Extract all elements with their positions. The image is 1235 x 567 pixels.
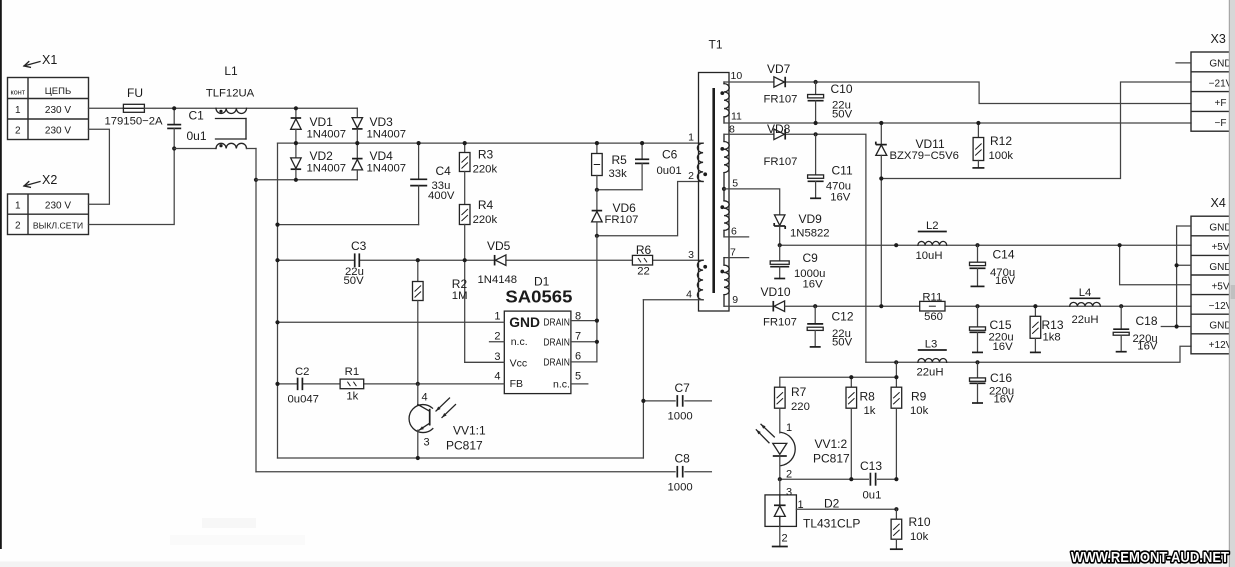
zener diode VD11	[876, 123, 887, 306]
svg-text:1: 1	[786, 422, 792, 434]
svg-text:16V: 16V	[993, 341, 1014, 353]
node C12 top	[813, 304, 817, 308]
node R2 top	[416, 258, 420, 262]
svg-text:R1: R1	[345, 366, 359, 378]
svg-text:2: 2	[782, 533, 788, 545]
node transformer pin5 junction	[722, 187, 726, 191]
svg-text:2: 2	[688, 170, 694, 182]
connector X1 arrow	[24, 62, 40, 68]
svg-text:3: 3	[688, 249, 694, 261]
node D2-R10 junction	[894, 507, 898, 511]
diode VD10	[773, 301, 784, 312]
connector X3 label	[1211, 32, 1226, 46]
resistor R12	[972, 123, 984, 168]
wire bridge mid rail (DC+)	[278, 142, 704, 144]
svg-text:−F: −F	[1215, 118, 1227, 129]
node R12 top	[976, 121, 980, 125]
wire C8 line (wire B)	[256, 467, 711, 476]
svg-text:1: 1	[15, 105, 21, 116]
svg-text:VV1:2: VV1:2	[815, 437, 848, 451]
wire R4 to Vcc corner	[465, 260, 505, 362]
wire pin7 stub	[724, 253, 749, 262]
svg-text:R5: R5	[612, 153, 628, 167]
node +5V split	[1118, 243, 1122, 247]
resistor R3	[459, 143, 470, 204]
svg-text:6: 6	[731, 226, 737, 238]
capacitor C2	[298, 378, 303, 391]
transformer T1 pin6 label	[731, 226, 737, 238]
svg-text:Vcc: Vcc	[510, 358, 528, 370]
transformer T1 pin3 label	[688, 249, 694, 261]
svg-text:VD4: VD4	[370, 149, 394, 163]
wire VD8 to +12 rail	[787, 134, 866, 362]
wire -F rail (pin11)	[724, 122, 1191, 124]
node R13 top	[1033, 304, 1037, 308]
diode VD5 label	[478, 239, 518, 286]
svg-text:C18: C18	[1136, 314, 1158, 328]
svg-text:50V: 50V	[344, 275, 365, 287]
fuse FU	[123, 104, 144, 112]
svg-text:22uH: 22uH	[1071, 314, 1098, 326]
faint watermark smudge	[170, 518, 305, 545]
wire fuse to bridge (top mains wire)	[144, 107, 357, 109]
wire X2.2 (ВЫКЛ.СЕТИ) to C1 bottom node	[89, 149, 175, 225]
node C18 top	[1119, 304, 1123, 308]
diode VD8 label	[764, 122, 798, 168]
ic D1 body	[504, 311, 571, 394]
node VD5 wire to Vcc column	[463, 258, 467, 262]
svg-text:10: 10	[731, 70, 743, 82]
diode VD8	[774, 129, 785, 140]
svg-text:C12: C12	[832, 310, 854, 324]
resistor R3 label	[473, 148, 498, 176]
svg-text:+F: +F	[1215, 98, 1227, 109]
capacitor C2 label	[288, 366, 319, 406]
svg-text:TLF12UA: TLF12UA	[206, 88, 255, 100]
svg-text:22uH: 22uH	[916, 367, 943, 379]
inductor L3 label	[916, 339, 943, 379]
svg-text:+5V: +5V	[1211, 281, 1229, 292]
svg-text:ВЫКЛ.СЕТИ: ВЫКЛ.СЕТИ	[33, 221, 83, 231]
resistor R9 label	[910, 390, 929, 418]
svg-text:GND: GND	[1209, 223, 1231, 234]
svg-text:R4: R4	[478, 198, 494, 212]
wire VD6 to transformer pin2	[597, 182, 703, 236]
svg-text:C8: C8	[675, 452, 691, 466]
node VD2 bottom	[294, 178, 298, 182]
node VV1:1 emitter on wire A	[416, 456, 420, 460]
svg-text:конт: конт	[11, 88, 26, 97]
node C10 top	[814, 80, 818, 84]
connector X3 table	[1191, 52, 1233, 131]
transformer T1 secondary 7-9 phase dot	[720, 270, 724, 274]
svg-text:R11: R11	[922, 291, 942, 303]
svg-text:1: 1	[494, 311, 500, 323]
inductor L4 label	[1071, 287, 1098, 326]
resistor R13	[1030, 306, 1041, 352]
diode VD4	[352, 143, 363, 180]
diode VD9 label	[790, 212, 830, 240]
diode VD3	[352, 118, 363, 144]
svg-text:16V: 16V	[830, 192, 851, 204]
diode VD1 label	[307, 115, 347, 141]
shunt D2 pin1 wire	[796, 508, 896, 510]
fuse FU label	[127, 86, 143, 100]
svg-text:1M: 1M	[452, 290, 468, 302]
svg-text:7: 7	[575, 331, 581, 343]
diode VD7	[774, 77, 785, 88]
transformer T1 core	[712, 88, 715, 293]
optocoupler VV1:1 light arrows	[436, 398, 456, 418]
svg-text:VD2: VD2	[310, 149, 334, 163]
watermark WWW.REMONT-AUD.NET	[1071, 550, 1229, 566]
node VD11 top	[879, 121, 883, 125]
resistor R12 label	[989, 134, 1014, 162]
svg-text:400V: 400V	[428, 190, 455, 202]
svg-text:FU: FU	[127, 86, 143, 100]
transformer T1 pin1 label	[688, 132, 694, 144]
svg-text:1000: 1000	[668, 411, 693, 423]
node C15 top	[975, 304, 979, 308]
node VD1 top rail	[294, 106, 298, 110]
svg-text:1000: 1000	[668, 482, 693, 494]
node R3 top	[463, 141, 467, 145]
svg-text:220k: 220k	[473, 214, 498, 226]
svg-text:0u047: 0u047	[288, 394, 319, 406]
connector X2 table	[8, 194, 89, 235]
svg-text:5: 5	[575, 371, 581, 383]
svg-text:220: 220	[791, 401, 810, 413]
wire pin8 drain	[571, 320, 597, 322]
capacitor C8	[677, 466, 682, 478]
transformer T1 pin9 label	[732, 294, 738, 306]
svg-text:1: 1	[15, 200, 21, 211]
wire LED to D2	[779, 479, 781, 495]
shunt D2 pin2 label	[782, 533, 788, 545]
capacitor C4	[410, 143, 427, 225]
capacitor C9 label	[794, 251, 825, 291]
svg-text:4: 4	[686, 289, 692, 301]
resistor R4	[459, 205, 470, 261]
svg-text:1N4007: 1N4007	[307, 129, 347, 141]
diode VD10 label	[761, 285, 797, 329]
transformer T1 secondary 8-5 phase dot	[720, 147, 724, 151]
shunt D2 designator	[824, 497, 840, 511]
right scrollbar strip	[1229, 0, 1235, 567]
svg-text:n.c.: n.c.	[511, 336, 528, 348]
resistor R1	[340, 379, 364, 389]
svg-text:2: 2	[15, 221, 21, 232]
connector X4 label	[1211, 196, 1226, 210]
svg-text:L4: L4	[1079, 287, 1092, 299]
svg-text:0u1: 0u1	[863, 490, 882, 502]
optocoupler VV1:2 pin2 label	[786, 469, 792, 481]
svg-text:L2: L2	[926, 220, 939, 232]
svg-text:3: 3	[494, 351, 500, 363]
node FB line left tap	[275, 382, 279, 386]
capacitor C16	[970, 362, 986, 403]
ic D1 designator	[534, 275, 550, 289]
resistor R1 label	[345, 366, 359, 403]
svg-text:n.c.: n.c.	[553, 379, 570, 391]
node C10 bottom	[814, 121, 818, 125]
zener VD11 label	[890, 137, 959, 162]
node C7 tap on pin4 drop	[641, 399, 645, 403]
svg-text:R7: R7	[791, 385, 807, 399]
node VD3-VD4 junction	[355, 141, 359, 145]
wire L1 lower to mains-neutral vertical	[247, 148, 257, 150]
svg-text:R12: R12	[990, 134, 1012, 148]
wire -12V rail	[785, 305, 1191, 307]
svg-text:X1: X1	[42, 53, 57, 67]
node FB-R2-opto junction	[416, 382, 420, 386]
svg-text:VD5: VD5	[487, 239, 511, 253]
capacitor C14 label	[990, 248, 1016, 288]
wire pin2 nc stub	[490, 341, 505, 343]
svg-text:VD9: VD9	[799, 212, 823, 226]
inductor L1 lower winding phase dot	[219, 144, 222, 147]
capacitor C1 label	[187, 109, 207, 144]
diode VD2 label	[307, 149, 347, 175]
svg-text:TL431CLP: TL431CLP	[803, 517, 860, 531]
svg-text:R2: R2	[452, 277, 468, 291]
resistor R11	[920, 301, 945, 311]
svg-text:C11: C11	[832, 164, 853, 178]
node R8 bottom	[849, 477, 853, 481]
wire feedback top rail	[780, 377, 897, 387]
node +5V to R9 column	[894, 243, 898, 247]
svg-text:100k: 100k	[989, 150, 1014, 162]
wire bridge bottom rail	[256, 179, 357, 181]
svg-text:C3: C3	[351, 239, 367, 253]
diode VD6 label	[605, 201, 639, 226]
svg-text:X4: X4	[1211, 196, 1226, 210]
wire transformer pin4 to drop	[643, 299, 703, 301]
svg-text:2: 2	[15, 125, 21, 136]
page left border line	[0, 0, 2, 549]
svg-text:L1: L1	[224, 64, 238, 78]
capacitor C10 label	[831, 82, 853, 121]
optocoupler VV1:1 pin4 label	[422, 392, 428, 404]
diode VD7 label	[764, 62, 798, 106]
optocoupler VV1:2 pin1 label	[786, 422, 792, 434]
resistor R10 label	[909, 515, 931, 543]
connector X2 arrow	[24, 182, 40, 188]
svg-text:C15: C15	[990, 318, 1012, 332]
inductor L4	[1070, 298, 1101, 306]
node C3 rail left tap	[275, 258, 279, 262]
svg-text:11: 11	[731, 111, 742, 123]
diode VD1	[291, 108, 302, 143]
inductor L1 upper winding phase dot	[219, 110, 222, 113]
svg-text:3: 3	[786, 487, 792, 499]
capacitor C9	[770, 245, 789, 278]
svg-text:3: 3	[424, 437, 430, 449]
diode VD9 (schottky)	[774, 215, 785, 245]
capacitor C6 label	[657, 148, 682, 178]
wire pin1 GND rail	[278, 321, 505, 323]
svg-text:C1: C1	[189, 109, 205, 123]
node GND bus row3	[1175, 263, 1179, 267]
svg-text:R10: R10	[909, 515, 931, 529]
resistor R8 label	[860, 390, 876, 418]
wire C1 bottom to L1 lower winding	[174, 148, 216, 150]
ic D1 SA0565 title	[505, 287, 572, 307]
wire X4 GND bus	[1161, 226, 1191, 331]
transformer T1 outline	[699, 73, 730, 312]
node C16 top	[975, 360, 979, 364]
inductor L1 label	[206, 64, 255, 100]
optocoupler VV1:2 LED	[773, 432, 795, 479]
capacitor C15 label	[989, 318, 1014, 353]
svg-text:1N4148: 1N4148	[478, 274, 518, 286]
capacitor C7 label	[668, 381, 693, 423]
svg-text:0u1: 0u1	[187, 129, 207, 143]
transformer T1 pin5 label	[732, 178, 738, 190]
svg-text:16V: 16V	[1137, 341, 1158, 353]
node GND bus row6	[1175, 324, 1179, 328]
svg-text:4: 4	[422, 392, 428, 404]
wire +12V rail (bottom)	[866, 346, 1191, 362]
transformer T1 primary winding 1-2	[697, 143, 703, 181]
svg-text:R3: R3	[478, 148, 494, 162]
svg-text:R8: R8	[860, 390, 876, 404]
svg-text:FR107: FR107	[763, 317, 797, 329]
svg-text:R6: R6	[636, 243, 652, 257]
wire bridge right column (top)	[356, 108, 358, 117]
transformer T1 secondary 5-6 phase dot	[720, 205, 724, 209]
svg-text:FR107: FR107	[764, 156, 798, 168]
svg-text:SA0565: SA0565	[505, 287, 572, 307]
svg-text:R13: R13	[1042, 318, 1064, 332]
shunt regulator D2 TL431	[765, 495, 796, 527]
svg-text:X3: X3	[1211, 32, 1226, 46]
node C4 return tap	[275, 223, 279, 227]
svg-text:16V: 16V	[994, 393, 1015, 405]
svg-text:230 V: 230 V	[45, 200, 71, 211]
node C1 top	[172, 106, 176, 110]
shunt D2 cathode lead	[772, 526, 788, 546]
svg-text:C13: C13	[860, 459, 882, 473]
wire mains neutral vertical	[255, 149, 257, 472]
svg-text:220k: 220k	[473, 164, 498, 176]
fuse FU value 179150-2A	[104, 116, 163, 128]
wire transformer pin4 drop	[642, 300, 644, 458]
wire DC- vertical (left primary common)	[277, 143, 279, 458]
resistor R13 label	[1042, 318, 1064, 344]
wire R5/C6 bottom join	[597, 189, 642, 191]
transformer T1 pin7 label	[730, 247, 736, 259]
svg-text:10k: 10k	[910, 405, 929, 417]
inductor L2 label	[915, 220, 942, 262]
svg-text:FB: FB	[510, 378, 523, 390]
svg-text:2: 2	[494, 331, 500, 343]
capacitor C10	[808, 82, 824, 123]
svg-text:C6: C6	[662, 148, 678, 162]
node C1 bottom	[172, 146, 176, 150]
node C14 top	[975, 243, 979, 247]
svg-text:560: 560	[924, 311, 943, 323]
diode VD5	[495, 255, 506, 266]
transformer T1 secondary 10-11 phase dot	[720, 91, 724, 95]
svg-text:1N4007: 1N4007	[307, 163, 347, 175]
wire +5V rail	[780, 244, 1191, 246]
capacitor C12 label	[832, 310, 854, 349]
capacitor C11 label	[826, 164, 853, 204]
svg-text:C4: C4	[436, 164, 452, 178]
wire +5V split to X4 row4	[1120, 245, 1191, 285]
node R8 top	[849, 375, 853, 379]
svg-text:7: 7	[730, 247, 736, 259]
svg-text:230 V: 230 V	[45, 125, 71, 136]
wire source common (wire A)	[278, 457, 644, 459]
node pin7 drain junction	[595, 340, 599, 344]
capacitor C12	[807, 306, 823, 347]
optocoupler VV1:1 pin3 label	[424, 437, 430, 449]
capacitor C18	[1113, 306, 1129, 352]
node VD1-VD2 junction	[294, 141, 298, 145]
svg-text:L3: L3	[925, 339, 938, 351]
capacitor C15	[970, 306, 986, 352]
diode VD2	[291, 143, 302, 180]
svg-text:PC817: PC817	[446, 439, 483, 453]
svg-text:DRAIN: DRAIN	[543, 318, 570, 329]
svg-text:1k: 1k	[346, 391, 358, 403]
svg-text:4: 4	[494, 371, 500, 383]
svg-text:1k8: 1k8	[1043, 332, 1061, 344]
inductor L1 upper winding	[216, 108, 247, 113]
resistor R10	[890, 509, 903, 549]
resistor R7 label	[791, 385, 810, 413]
wire pin3 Vcc	[465, 361, 505, 363]
ic D1 pin numbers	[494, 311, 581, 383]
shunt D2 type label	[803, 517, 860, 531]
wire pin6 drain	[571, 236, 597, 362]
svg-text:C2: C2	[295, 366, 309, 378]
capacitor C8 label	[668, 452, 693, 494]
node -21V tap on zener column	[879, 176, 883, 180]
transformer T1 pin11 label	[731, 111, 742, 123]
svg-text:R9: R9	[911, 390, 927, 404]
node VD9-C9 junction	[778, 243, 782, 247]
diode VD4 label	[367, 149, 407, 175]
svg-text:22: 22	[637, 266, 650, 278]
svg-text:5: 5	[732, 178, 738, 190]
resistor R2 label	[452, 277, 468, 302]
svg-text:1: 1	[798, 499, 804, 511]
svg-text:10uH: 10uH	[915, 250, 942, 262]
inductor L1 core	[216, 119, 247, 140]
svg-text:C10: C10	[831, 82, 853, 96]
connector X4 table	[1191, 216, 1233, 354]
node R5 C6 join	[595, 188, 599, 192]
svg-text:6: 6	[575, 351, 581, 363]
resistor R8	[846, 377, 857, 479]
node C11 top	[814, 132, 818, 136]
connector X1 label	[42, 53, 57, 67]
resistor R4 label	[473, 198, 498, 226]
svg-text:PC817: PC817	[813, 452, 850, 466]
node R9 bottom	[894, 477, 898, 481]
resistor R5	[592, 143, 603, 190]
svg-text:16V: 16V	[803, 279, 824, 291]
svg-text:C9: C9	[803, 251, 819, 265]
capacitor C11	[808, 134, 824, 198]
diode VD3 label	[367, 115, 407, 141]
svg-text:50V: 50V	[832, 337, 853, 349]
transformer T1 pin10 label	[731, 70, 743, 82]
svg-text:VD10: VD10	[761, 285, 791, 299]
